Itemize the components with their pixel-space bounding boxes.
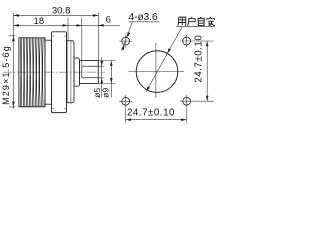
nut chamfer lines (52, 36, 66, 108)
rear collar (74, 58, 80, 86)
svg-text:6: 6 (106, 14, 111, 25)
thread relief groove (45, 40, 52, 104)
30.8/6 shared extension line (97, 13, 99, 61)
dimension 18 line (13, 24, 120, 26)
label yonghuziding (drawn strokes: 用户自定) (178, 17, 215, 26)
svg-text:M29×1.5-6g: M29×1.5-6g (1, 45, 11, 105)
char ding (207, 17, 215, 26)
svg-text:30.8: 30.8 (52, 5, 71, 16)
18 extension line (67, 18, 69, 41)
step section D inner edge (70, 41, 72, 104)
thread section M29 body (19, 38, 45, 107)
shaft o5 inner lines (82, 66, 99, 78)
bottom 24.7 dimension extensions (126, 108, 187, 123)
flange / nut section (52, 32, 67, 113)
centerline left view (3, 71, 105, 73)
main shell circle (136, 51, 178, 93)
char yong (178, 17, 186, 26)
svg-text:24.7±0.10: 24.7±0.10 (194, 35, 205, 83)
dimension 6 line (76, 24, 81, 27)
svg-text:4-ø3.6: 4-ø3.6 (129, 12, 158, 23)
M29x1.5-6g dimension line (12, 13, 14, 109)
o5 dimension (99, 66, 104, 78)
leader 4-o3.6 (122, 22, 160, 51)
thread texture lines (20, 38, 45, 106)
char zi (198, 17, 204, 26)
dimension 30.8 line (13, 14, 98, 16)
leader yonghu (146, 27, 215, 92)
right view: mounting hole top-left (122, 37, 130, 45)
right 24.7 dimension (193, 41, 213, 101)
svg-text:ø9: ø9 (101, 88, 111, 98)
shaft o9 outline (80, 61, 99, 84)
step section D (67, 41, 74, 103)
o9 dimension (99, 61, 116, 84)
mounting hole top-right (183, 37, 191, 45)
mounting hole bottom-left (122, 97, 130, 105)
svg-text:18: 18 (34, 15, 44, 26)
6 extension line (81, 18, 83, 66)
char hu (187, 17, 195, 26)
circle centerlines (128, 43, 184, 98)
mounting hole bottom-right (183, 97, 191, 105)
svg-text:24.7±0.10: 24.7±0.10 (127, 107, 175, 118)
